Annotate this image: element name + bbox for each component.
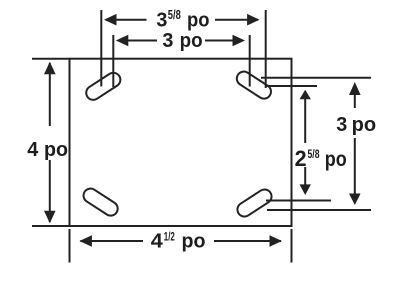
svg-text:po: po — [44, 139, 68, 161]
extension line for 4-1/2 dim, right — [291, 229, 293, 263]
svg-text:3: 3 — [156, 9, 167, 31]
top edge extension line (left, for 4 po) — [32, 58, 70, 60]
plate outline — [70, 59, 292, 226]
slot hole bottom-left — [81, 186, 120, 218]
leader line from top-right slot, lower (2-5/8 dim) — [265, 85, 317, 87]
dimension line 2-5/8 po, upper shaft — [304, 98, 306, 143]
dimension line 3 po right, upper shaft — [354, 94, 356, 108]
extension line for 3-5/8 dim, right — [265, 10, 267, 88]
svg-text:po: po — [352, 114, 377, 136]
extension line for 4-1/2 dim, left — [69, 229, 71, 263]
slot hole bottom-right — [235, 187, 274, 219]
svg-text:po: po — [187, 9, 210, 31]
svg-text:po: po — [325, 148, 347, 171]
arrowhead 4 po up — [44, 62, 56, 75]
slot hole top-left — [84, 70, 123, 102]
label 4 po (left) — [27, 139, 68, 161]
arrowhead 3-5/8 left (points left) — [104, 14, 117, 26]
arrowhead 3 po right down — [349, 194, 361, 206]
svg-text:5/8: 5/8 — [308, 147, 320, 161]
arrowhead 2-5/8 up — [300, 90, 311, 99]
bottom edge extension line (left, for 4 po) — [32, 225, 70, 227]
svg-text:2: 2 — [295, 146, 307, 171]
arrowhead 3 po top right (points right) — [233, 35, 246, 47]
label 3 po (right) — [336, 114, 376, 136]
dimension line 3 po top, left shaft — [118, 40, 157, 42]
dimension line 3-5/8 po, left shaft — [106, 19, 147, 21]
leader line from bottom-right slot, upper (2-5/8 dim) — [266, 200, 331, 202]
extension line for 3 dim, left — [112, 35, 114, 87]
dimension line 3 po right, lower shaft — [354, 138, 356, 195]
svg-text:1/2: 1/2 — [164, 230, 175, 244]
arrowhead 3-5/8 right (points right) — [247, 14, 260, 26]
label 3 po (top) — [162, 30, 202, 52]
arrowhead 4-1/2 right (points right) — [270, 235, 283, 247]
leader line from bottom-right slot, lower (3 po right dim) — [267, 209, 371, 211]
svg-text:po: po — [182, 230, 206, 252]
svg-text:4: 4 — [151, 230, 164, 252]
svg-text:po: po — [180, 30, 203, 52]
arrowhead 4 po down — [44, 211, 56, 224]
label 4-1/2 po (bottom) — [151, 230, 206, 253]
svg-text:4: 4 — [27, 139, 39, 161]
dimension line 2-5/8 po, lower shaft — [304, 167, 306, 185]
dimension line 4 po, upper shaft — [49, 63, 51, 126]
dimension line 3-5/8 po, right shaft — [215, 19, 258, 21]
leader line from top-right slot, upper (3 po right dim) — [261, 77, 371, 79]
arrowhead 4-1/2 left (points left) — [79, 235, 92, 247]
dimension line 3 po top, right shaft — [205, 40, 243, 42]
arrowhead 2-5/8 down — [300, 184, 311, 195]
extension line for 3-5/8 dim, left — [100, 10, 102, 87]
arrowhead 3 po top left (points left) — [116, 35, 129, 47]
slot hole top-right — [234, 69, 273, 101]
dimension line 4 po, lower shaft — [49, 160, 51, 222]
svg-text:3: 3 — [162, 30, 173, 52]
dimension line 4-1/2 po, left shaft — [80, 240, 143, 242]
svg-text:3: 3 — [336, 114, 347, 136]
svg-text:5/8: 5/8 — [168, 8, 181, 22]
extension line for 3 dim, right — [249, 35, 251, 87]
arrowhead 3 po right up — [349, 82, 361, 95]
label 3-5/8 po — [156, 8, 209, 31]
label 2-5/8 po (right) — [295, 146, 347, 171]
dimension line 4-1/2 po, right shaft — [214, 240, 281, 242]
